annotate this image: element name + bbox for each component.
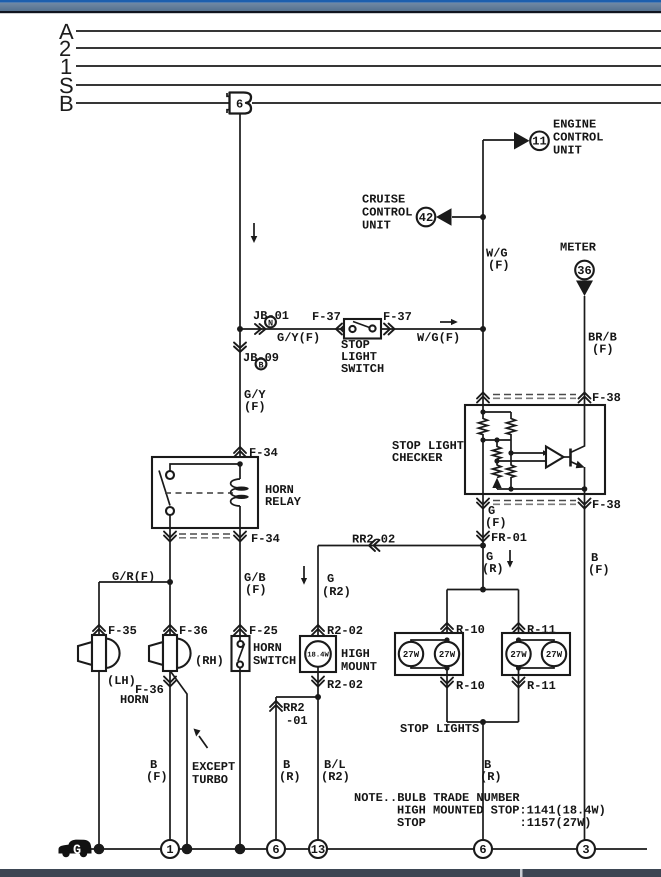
svg-text:(R): (R) <box>482 562 504 576</box>
relay mechanical dashed link <box>165 492 233 494</box>
svg-text:27W: 27W <box>403 650 420 660</box>
svg-text:-01: -01 <box>286 714 308 728</box>
connector chevron F-34 top <box>234 447 246 457</box>
wire left main down to relay <box>239 329 241 457</box>
wire right stop light branch upper <box>518 590 520 643</box>
relay coil wire to bottom <box>239 506 241 528</box>
wire RH horn down <box>169 671 171 840</box>
svg-text:B: B <box>258 360 263 370</box>
relay switch blade <box>159 471 170 506</box>
svg-text:METER: METER <box>560 241 597 255</box>
bulb 27W left-outer <box>399 642 423 666</box>
bus line 1 <box>76 65 661 67</box>
node checker mid left <box>480 437 485 442</box>
svg-text:(F): (F) <box>245 583 267 597</box>
wire right meter vertical <box>584 296 586 405</box>
resistor R-left <box>479 419 488 435</box>
node junction RR2-01 <box>315 694 321 700</box>
wire right main vertical upper <box>482 140 484 405</box>
relay coil core ellipse lower <box>234 495 248 499</box>
svg-text:N: N <box>268 318 273 328</box>
ground circle 1 <box>161 840 179 858</box>
svg-text:(F): (F) <box>146 770 168 784</box>
svg-text:27W: 27W <box>439 650 456 660</box>
wire LH horn to ground <box>98 671 100 849</box>
wire except-turbo diagonal <box>171 672 187 849</box>
connector chevron F-36 bottom <box>164 677 176 687</box>
svg-text:(F): (F) <box>485 516 507 530</box>
bus line 2 <box>76 47 661 49</box>
connector chevron R-11 top <box>513 623 525 633</box>
svg-text:F-25: F-25 <box>249 624 278 638</box>
svg-text:F-38: F-38 <box>592 498 621 512</box>
svg-text:MOUNT: MOUNT <box>341 660 377 674</box>
horn LH magnet <box>78 642 92 665</box>
wire comparator lower input <box>497 460 549 462</box>
resistor lower right <box>507 465 516 478</box>
horn LH dome <box>106 639 120 669</box>
svg-text:F-36: F-36 <box>179 624 208 638</box>
wire RR2-02 horizontal <box>318 545 483 547</box>
stop light switch contact left <box>349 326 355 332</box>
svg-text:FR-01: FR-01 <box>491 531 527 545</box>
svg-text:(R): (R) <box>480 770 502 784</box>
svg-text:RELAY: RELAY <box>265 495 302 509</box>
svg-text:6: 6 <box>236 98 243 112</box>
svg-text:STOP: STOP <box>397 816 426 830</box>
arrow to cruise control unit <box>436 208 452 225</box>
svg-text:F-35: F-35 <box>108 624 137 638</box>
svg-text:18.4W: 18.4W <box>307 652 329 660</box>
connector tag 6 on bus B <box>230 93 252 114</box>
node right box top <box>516 637 521 642</box>
svg-text:G/Y(F): G/Y(F) <box>277 331 320 345</box>
node right box bottom <box>516 665 521 670</box>
wire relay switch to G/R junction and RH horn <box>169 528 171 636</box>
svg-text:HORN: HORN <box>253 641 282 655</box>
bulb 27W right-outer <box>542 642 566 666</box>
svg-text:1: 1 <box>166 843 173 857</box>
svg-text:CHECKER: CHECKER <box>392 451 443 465</box>
svg-text:F-37: F-37 <box>312 310 341 324</box>
svg-text:R2-02: R2-02 <box>327 678 363 692</box>
node emitter rail <box>582 486 588 492</box>
resistor R-right <box>507 419 516 435</box>
node junction stop light split <box>480 587 486 593</box>
svg-text:G: G <box>73 844 81 859</box>
resistor mid upper <box>493 447 502 460</box>
stop light box left <box>395 633 463 675</box>
svg-text:SWITCH: SWITCH <box>341 362 384 376</box>
svg-text:27W: 27W <box>546 650 563 660</box>
wire G/Y to stop light switch <box>240 328 344 330</box>
wire left main below checker <box>482 494 484 590</box>
wire relay switch output <box>169 515 171 528</box>
svg-text:(R2): (R2) <box>321 770 350 784</box>
stop light switch contact right <box>369 325 375 331</box>
wire right main below checker <box>584 494 586 840</box>
svg-text:27W: 27W <box>510 650 527 660</box>
ground rail <box>91 848 647 850</box>
connector dashed boundary F-34 <box>179 533 232 535</box>
arrow to engine control unit <box>514 132 530 150</box>
node junction relay coil top <box>237 461 243 467</box>
wire LH horn drop <box>98 582 100 636</box>
wire comparator output <box>564 456 571 458</box>
svg-text:(F): (F) <box>588 563 610 577</box>
ground circle 13 <box>309 840 327 858</box>
relay coil core ellipse upper <box>234 487 248 491</box>
wire W/G to right main <box>381 328 483 330</box>
wire 511 upper segment <box>510 412 512 489</box>
wire emitter with arrow <box>571 462 583 467</box>
bulb 27W right-inner <box>506 642 530 666</box>
connector chevron F-36 top <box>164 625 176 635</box>
high mount bulb <box>305 641 331 667</box>
arrow comparator upper input <box>543 450 549 455</box>
connector circle 11 engine control unit <box>530 132 549 151</box>
node checker top left <box>480 409 485 414</box>
transistor base bar <box>569 449 572 467</box>
connector chevron F-34 bottom left <box>164 532 176 542</box>
svg-text::1157(27W): :1157(27W) <box>520 816 592 830</box>
wire checker bottom rail <box>497 488 585 490</box>
bus line B right segment <box>252 102 661 104</box>
svg-text:CONTROL: CONTROL <box>553 131 603 145</box>
node checker input tap upper <box>508 450 513 455</box>
connector dashed boundary F-38 bottom <box>493 500 576 502</box>
svg-text:36: 36 <box>577 264 591 278</box>
svg-text:F-37: F-37 <box>383 310 412 324</box>
svg-text:HIGH: HIGH <box>341 647 370 661</box>
wire left stop light branch lower <box>446 666 448 722</box>
svg-text:F-36: F-36 <box>135 683 164 697</box>
svg-text:STOP LIGHTS: STOP LIGHTS <box>400 722 479 736</box>
wire G/R horizontal <box>99 581 170 583</box>
svg-text:SWITCH: SWITCH <box>253 654 296 668</box>
wire relay internal top <box>170 464 240 471</box>
bus line B left segment <box>76 102 230 104</box>
svg-text:3: 3 <box>582 843 589 857</box>
ground circle 6 right <box>474 840 492 858</box>
ground dot LH horn <box>94 844 105 855</box>
diode arrow up <box>492 478 501 488</box>
flow arrow down on left main wire <box>253 223 255 237</box>
node left box top <box>444 637 449 642</box>
connector chevron JB-01 <box>255 324 266 334</box>
svg-text:6: 6 <box>272 843 279 857</box>
connector circle 36 meter <box>575 261 594 280</box>
svg-text:42: 42 <box>419 211 433 225</box>
svg-text:(R2): (R2) <box>322 585 351 599</box>
horn switch box <box>232 636 250 671</box>
node junction W/G right main <box>480 326 486 332</box>
svg-text:CRUISE: CRUISE <box>362 193 405 207</box>
horn RH body <box>163 635 177 671</box>
connector chevron R2-02 bottom <box>312 677 324 687</box>
ground circle 3 <box>577 840 595 858</box>
svg-text:UNIT: UNIT <box>362 219 391 233</box>
svg-text:RR2-02: RR2-02 <box>352 533 395 547</box>
node junction rejoin <box>480 719 486 725</box>
stop light box right <box>502 633 570 675</box>
horn LH body <box>92 635 106 671</box>
svg-text:(F): (F) <box>592 343 614 357</box>
right box inner top rail <box>519 640 555 642</box>
svg-text:R-10: R-10 <box>456 679 485 693</box>
connector chevron R-10 top <box>441 623 453 633</box>
flow arrow down G R2 <box>303 566 305 579</box>
svg-text:F-38: F-38 <box>592 391 621 405</box>
wire horn switch to ground <box>239 671 241 849</box>
bottom bar <box>0 869 661 877</box>
left box inner top rail <box>411 640 447 642</box>
wire to cruise control unit <box>452 216 483 218</box>
arrow from meter down <box>576 281 593 297</box>
horn switch contact bottom <box>237 662 243 668</box>
node checker mid tap <box>494 437 499 442</box>
svg-text:G: G <box>327 572 334 586</box>
connector chevron RR2-01 <box>270 701 282 711</box>
connector chevron F-38 bottom left <box>477 499 489 509</box>
svg-text:EXCEPT: EXCEPT <box>192 760 235 774</box>
svg-text:11: 11 <box>532 135 546 149</box>
connector circle 42 cruise control unit <box>417 208 436 227</box>
connector chevron F-37 left <box>336 324 347 335</box>
connector dashed boundary F-38 top <box>493 394 576 396</box>
connector chevron F-25 <box>234 625 246 635</box>
resistor mid lower <box>493 465 502 478</box>
svg-text:UNIT: UNIT <box>553 144 582 158</box>
connector chevron F-34 bottom right <box>234 532 246 542</box>
wire RR2-01 horizontal <box>276 696 318 698</box>
top banner bar <box>0 0 661 3</box>
ground car symbol <box>59 840 92 854</box>
connector chevron R-10 bottom <box>441 678 453 688</box>
junction block circle B <box>256 359 267 370</box>
high mount box <box>300 636 336 672</box>
connector chevron JB-09 <box>234 343 246 353</box>
wire stop lights to ground <box>482 722 484 840</box>
ground dot horn switch <box>235 844 246 855</box>
wire 497 chain <box>496 440 498 489</box>
wire collector from right main <box>571 405 585 453</box>
bus line A <box>76 30 661 32</box>
wire RR2-01 drop <box>275 697 277 840</box>
wire checker top crossbar <box>483 411 511 413</box>
horn switch contact top <box>238 641 244 647</box>
connector chevron F-37 right <box>384 324 395 335</box>
flow arrow right on W/G wire <box>440 321 452 323</box>
wire comparator upper input <box>511 452 546 454</box>
relay coil wire from top <box>239 464 241 479</box>
relay contact top <box>166 471 174 479</box>
bus line S <box>76 84 661 86</box>
wire emitter down <box>584 467 586 494</box>
svg-text:(LH): (LH) <box>107 674 136 688</box>
relay contact bottom <box>166 507 174 515</box>
connector chevron F-38 top left <box>477 393 489 403</box>
svg-text:G/R(F): G/R(F) <box>112 570 155 584</box>
wire high mount lower <box>317 666 319 840</box>
svg-text:R-11: R-11 <box>527 679 556 693</box>
node junction JB-01 <box>237 326 243 332</box>
wire checker mid crossbar <box>483 439 511 441</box>
wire horn switch drop <box>239 528 241 637</box>
relay coil <box>231 479 240 506</box>
junction block circle N <box>265 317 276 328</box>
stop light switch blade <box>353 322 370 328</box>
svg-text:13: 13 <box>311 843 325 857</box>
ground dot except turbo <box>182 844 193 855</box>
right box inner bottom rail <box>519 666 555 668</box>
connector chevron R2-02 top <box>312 625 324 635</box>
node checker input tap lower <box>494 458 499 463</box>
stop light checker box <box>465 405 605 494</box>
node left box bottom <box>444 665 449 670</box>
connector chevron FR-01 <box>477 532 489 542</box>
connector chevron R-11 bottom <box>513 678 525 688</box>
wire high mount drop <box>317 546 319 643</box>
svg-text:TURBO: TURBO <box>192 773 228 787</box>
svg-text:F-34: F-34 <box>251 532 280 546</box>
node junction G/R <box>167 579 173 585</box>
wire stop light rejoin <box>447 721 519 723</box>
connector chevron F-38 top right <box>579 393 591 403</box>
wire checker left vertical <box>482 405 484 494</box>
svg-text:RR2: RR2 <box>283 701 305 715</box>
ground circle 6 left <box>267 840 285 858</box>
horn relay box <box>152 457 258 528</box>
wire stop light split horizontal <box>447 589 519 591</box>
wire right stop light branch lower <box>518 666 520 722</box>
bulb 27W left-inner <box>435 642 459 666</box>
wire to engine control unit <box>483 139 515 141</box>
svg-text:ENGINE: ENGINE <box>553 118 596 132</box>
svg-text:W/G(F): W/G(F) <box>417 331 460 345</box>
connector chevron RR2-02 <box>369 540 380 551</box>
left box inner bottom rail <box>411 666 447 668</box>
wire left stop light branch upper <box>446 590 448 643</box>
svg-text:B: B <box>59 91 74 116</box>
svg-text:6: 6 <box>479 843 486 857</box>
wire from tag 6 down <box>239 114 241 330</box>
horn switch blade <box>238 644 245 662</box>
svg-text:(F): (F) <box>488 259 510 273</box>
node junction cruise branch <box>480 214 486 220</box>
svg-text:(RH): (RH) <box>195 654 224 668</box>
flow arrow down G R <box>509 550 511 562</box>
connector chevron F-38 bottom right <box>579 499 591 509</box>
stop light switch box <box>344 319 381 339</box>
svg-text:CONTROL: CONTROL <box>362 206 412 220</box>
svg-text:(R): (R) <box>279 770 301 784</box>
connector chevron F-35 <box>93 625 105 635</box>
node rail 511 <box>508 486 513 491</box>
horn RH magnet <box>149 642 163 665</box>
horn RH dome <box>177 639 191 669</box>
arrow except turbo <box>199 736 208 748</box>
node junction RR2-02 <box>480 543 486 549</box>
svg-text:(F): (F) <box>244 400 266 414</box>
comparator triangle <box>546 447 564 468</box>
